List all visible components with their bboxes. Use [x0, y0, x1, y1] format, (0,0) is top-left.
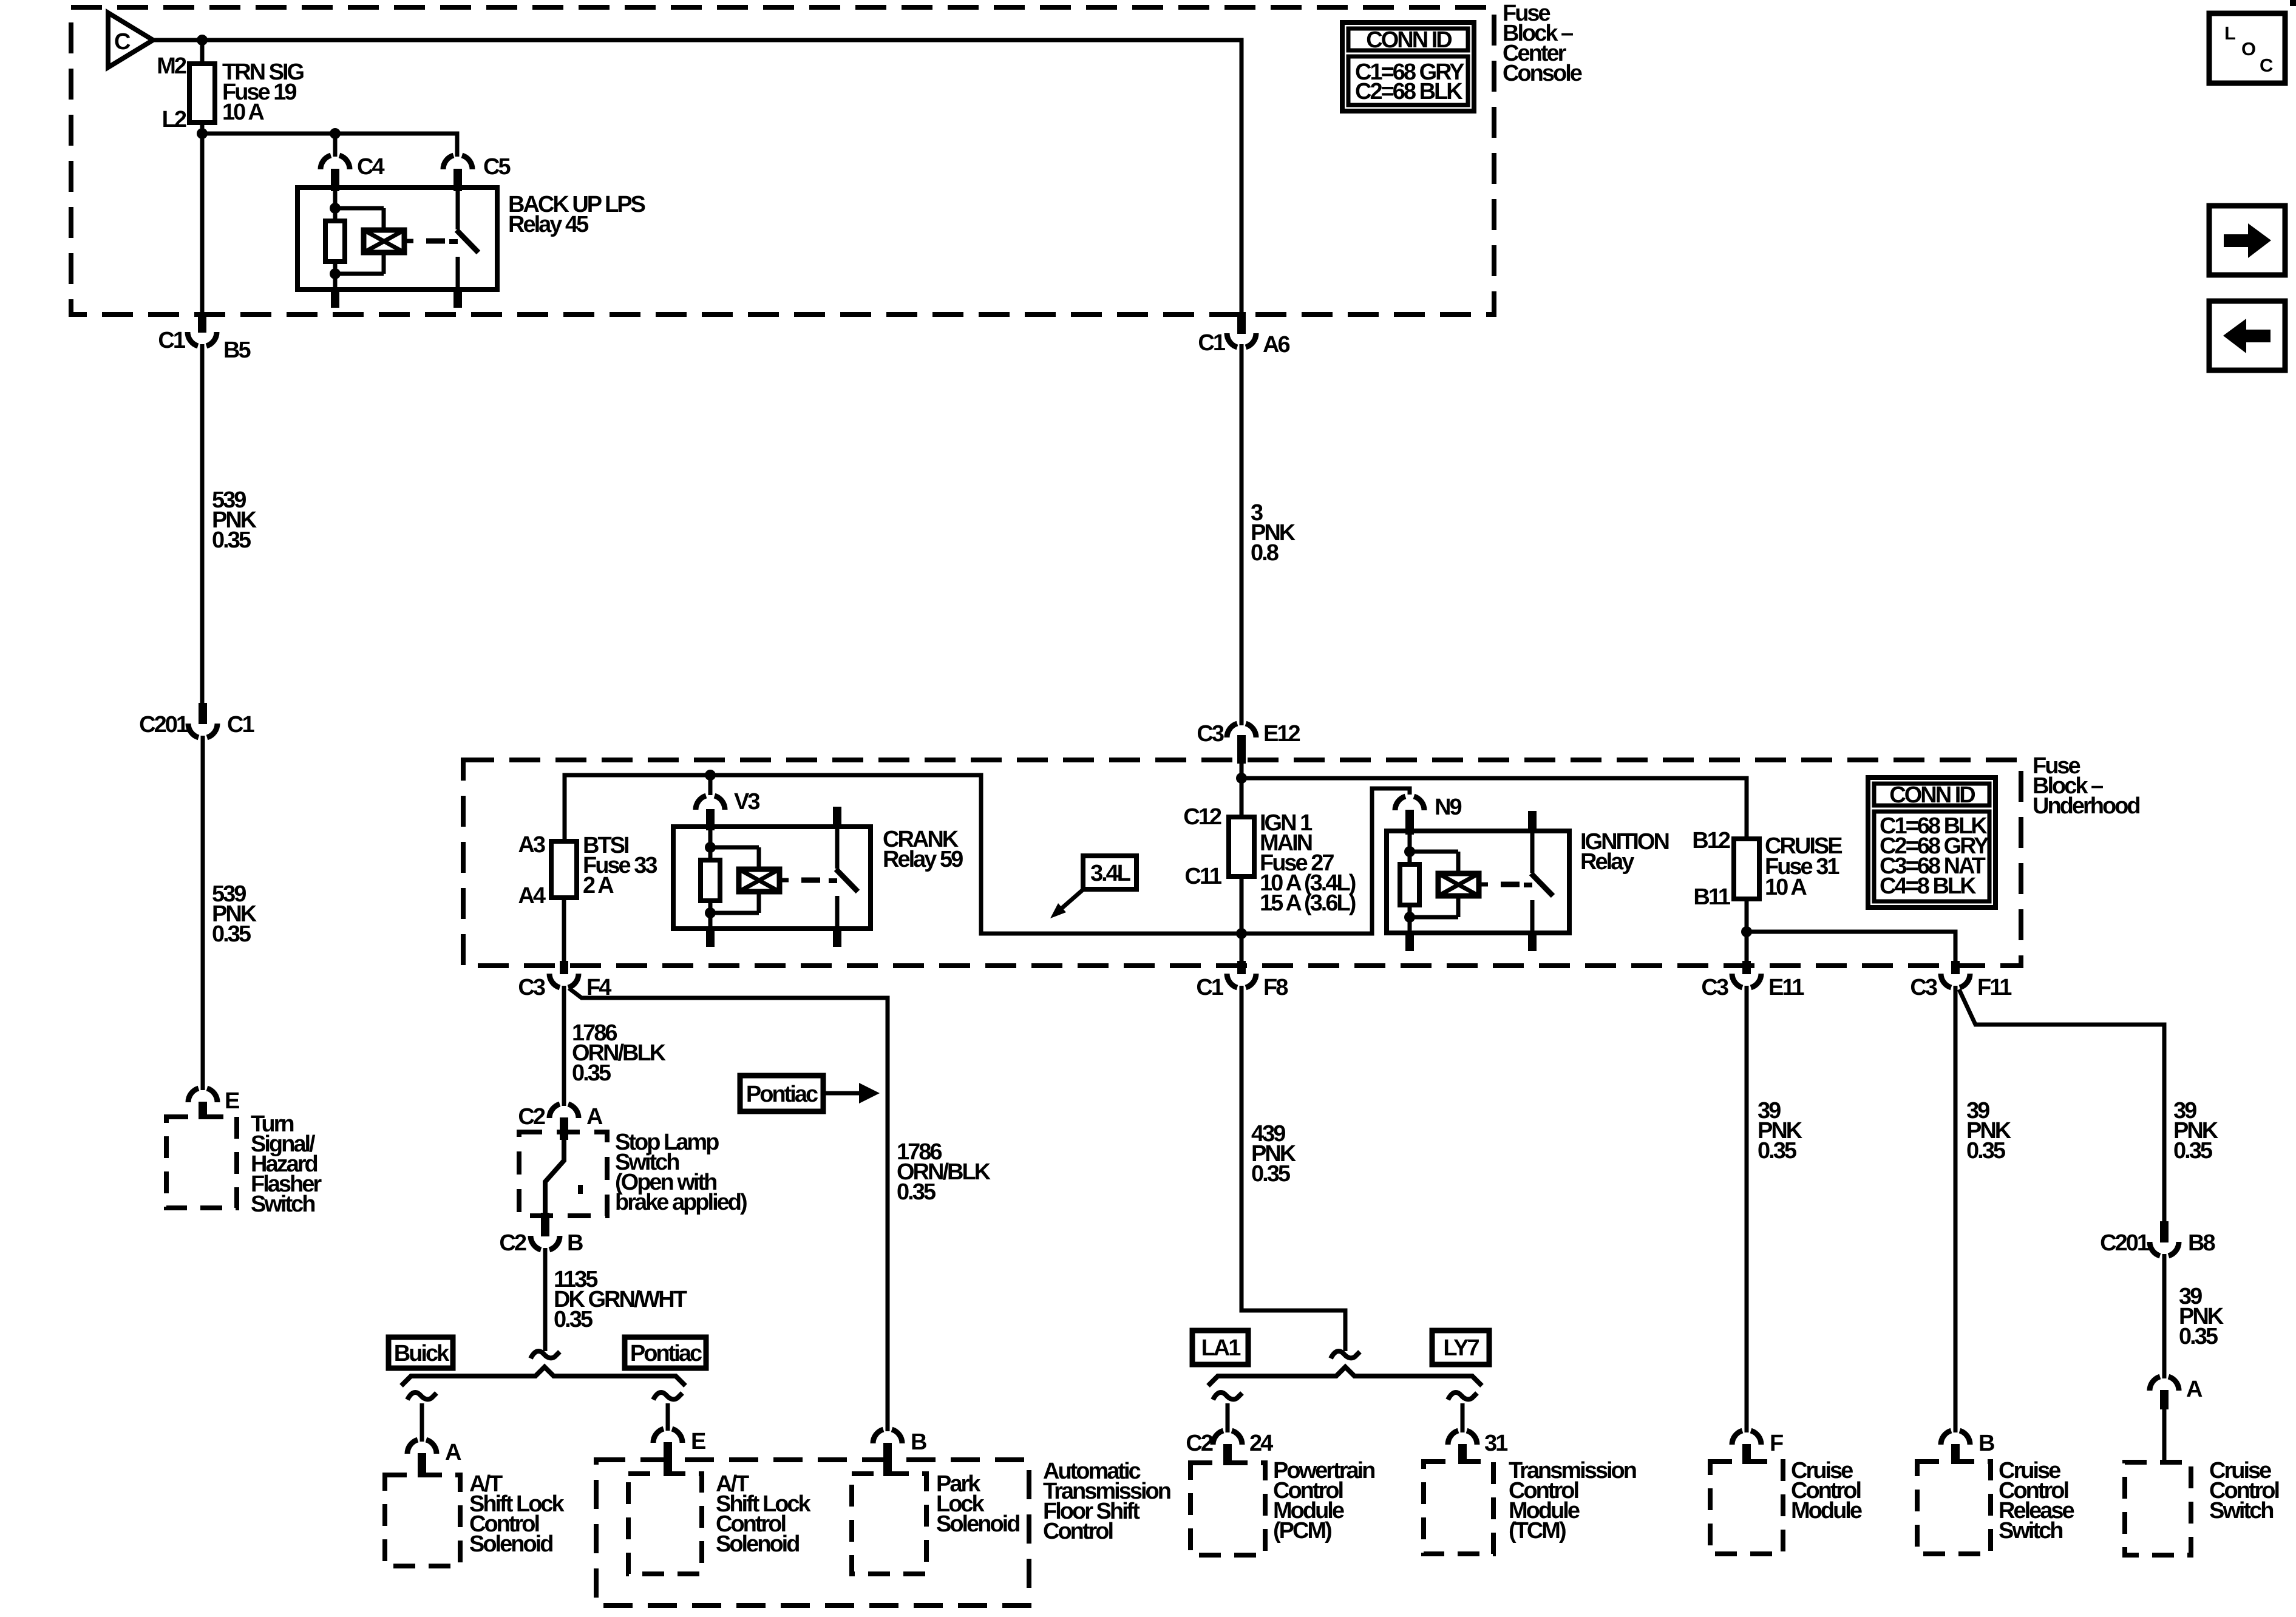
wire 1786 ORN/BLK to stop lamp switch [562, 986, 566, 1106]
label C3 at E11 [1701, 975, 1728, 1000]
wire label 1786 ORN/BLK upper [572, 1020, 667, 1086]
label F4 [586, 975, 611, 1000]
svg-text:A: A [445, 1440, 461, 1465]
label B cruise release [1978, 1431, 1994, 1456]
label B5 [223, 337, 251, 363]
tag box LA1 [1192, 1331, 1248, 1364]
tcm label [1509, 1458, 1636, 1544]
label V3 [734, 789, 759, 815]
svg-text:C12: C12 [1183, 804, 1221, 830]
pcm label [1273, 1458, 1374, 1544]
svg-text:E12: E12 [1263, 721, 1300, 747]
svg-text:C201: C201 [139, 712, 189, 737]
tag box 3.4L [1083, 856, 1136, 889]
svg-text:C1: C1 [1196, 975, 1223, 1000]
pin label A3 [518, 832, 545, 858]
svg-text:V3: V3 [734, 789, 759, 815]
connector E turn signal [188, 1088, 217, 1119]
svg-text:Solenoid: Solenoid [716, 1531, 799, 1557]
wire 539 PNK upper segment [200, 344, 205, 704]
fuse block underhood label [2033, 753, 2139, 819]
svg-text:O: O [2241, 38, 2255, 59]
wire cruise fuse tap to F11 [1747, 932, 1955, 963]
svg-text:C2: C2 [499, 1230, 526, 1256]
legend arrow right box [2209, 206, 2285, 275]
wire label 3 PNK 0.8 [1251, 500, 1296, 566]
junction dot at C4 branch [330, 128, 341, 139]
connector B cruise release [1941, 1431, 1970, 1464]
connector 31 tcm [1448, 1431, 1477, 1464]
svg-text:C: C [2260, 55, 2273, 76]
svg-text:C3: C3 [518, 975, 545, 1000]
svg-text:C3: C3 [1701, 975, 1728, 1000]
wire right bus to cruise fuse [1241, 778, 1747, 839]
junction dot below cruise fuse [1741, 926, 1752, 937]
svg-text:Switch: Switch [251, 1192, 314, 1217]
cruise switch label [2209, 1458, 2279, 1524]
pin label A4 [518, 883, 545, 909]
wire break left branch [407, 1392, 436, 1400]
svg-text:Console: Console [1503, 61, 1582, 86]
svg-text:A3: A3 [518, 832, 545, 858]
label C1 at A6 [1198, 330, 1225, 356]
pin label B11 [1693, 884, 1730, 910]
label C1 at F8 [1196, 975, 1223, 1000]
relay 45 label [508, 192, 645, 237]
conn id table center console [1342, 22, 1474, 111]
wire 39 PNK below B8 [2162, 1254, 2167, 1378]
connector C1/A6 [1227, 312, 1256, 347]
label C2 at A [518, 1104, 545, 1130]
wire top bus from C triangle to A6 drop [153, 40, 1241, 317]
svg-text:(TCM): (TCM) [1509, 1518, 1566, 1544]
connector C5 [443, 155, 472, 191]
fuse block center console label [1503, 1, 1582, 86]
svg-text:C3: C3 [1197, 721, 1223, 747]
connector A cruise switch [2150, 1377, 2179, 1409]
label C1 at C201 [227, 712, 254, 737]
pin label M2 [157, 53, 186, 79]
svg-text:0.35: 0.35 [1758, 1138, 1797, 1164]
svg-text:2 A: 2 A [583, 873, 614, 898]
svg-text:C4: C4 [357, 154, 384, 180]
svg-text:0.35: 0.35 [897, 1179, 936, 1205]
connector N9 [1395, 796, 1424, 835]
connector C3/E12 [1227, 724, 1256, 764]
tag box LY7 [1432, 1331, 1489, 1364]
fuse F31 CRUISE 10A [1734, 839, 1759, 899]
svg-text:C2=68 BLK: C2=68 BLK [1355, 79, 1463, 104]
fuse block center console dashed box [71, 7, 1494, 314]
wire break above brace 1 [531, 1351, 560, 1358]
cruise control module label [1791, 1458, 1862, 1524]
fuse F33 BTSI 2A [551, 841, 577, 898]
svg-text:B: B [1978, 1431, 1994, 1456]
pontiac shift lock solenoid label [716, 1471, 812, 1557]
connector C1/F8 [1227, 961, 1256, 988]
tcm box [1424, 1462, 1493, 1554]
label E turn signal [225, 1088, 239, 1114]
pcm box [1190, 1463, 1265, 1555]
tag box Pontiac lower [625, 1337, 706, 1368]
stop lamp switch blade [545, 1140, 580, 1215]
svg-text:E: E [691, 1429, 705, 1454]
connector C201/C1 [188, 703, 217, 737]
tag box Pontiac with arrow [740, 1076, 880, 1111]
splice brace buick/pontiac [401, 1367, 685, 1386]
wire 39 PNK to cruise module [1745, 986, 1749, 1432]
label C4 [357, 154, 384, 180]
wire label 39 PNK 0.35 branch lower [2179, 1284, 2224, 1349]
svg-text:0.8: 0.8 [1251, 540, 1279, 566]
svg-text:0.35: 0.35 [554, 1307, 593, 1332]
fuse 31 value label [1765, 833, 1842, 900]
splice brace la1/ly7 [1208, 1367, 1482, 1386]
connector C3/E11 [1732, 961, 1761, 988]
svg-text:A6: A6 [1263, 332, 1289, 358]
svg-text:Pontiac: Pontiac [630, 1341, 702, 1366]
label 24 [1249, 1431, 1273, 1456]
svg-text:3.4L: 3.4L [1090, 861, 1131, 886]
arrow from 3.4L tag [1050, 888, 1085, 918]
svg-text:B: B [911, 1429, 926, 1455]
cruise release switch label [1999, 1458, 2074, 1544]
fuse F27 IGN1 MAIN [1229, 817, 1254, 876]
label F11 [1977, 975, 2012, 1000]
svg-text:0.35: 0.35 [572, 1060, 611, 1086]
svg-text:C3: C3 [1910, 975, 1937, 1000]
label E12 [1263, 721, 1300, 747]
svg-text:0.35: 0.35 [1966, 1138, 2006, 1164]
legend arrow left box [2209, 301, 2285, 370]
label C2 at pcm [1186, 1431, 1212, 1456]
pin label L2 [162, 107, 186, 132]
svg-text:(PCM): (PCM) [1273, 1518, 1331, 1544]
wire label 39 PNK 0.35 f11 [1966, 1098, 2012, 1164]
wire label 539 PNK 0.35 upper [212, 487, 257, 553]
wire break pcm branch [1213, 1392, 1242, 1400]
wire 39 PNK branch to cruise switch [1959, 989, 2164, 1221]
svg-text:F11: F11 [1977, 975, 2012, 1000]
relay IGNITION label [1580, 829, 1668, 875]
svg-text:0.35: 0.35 [212, 527, 251, 553]
stop lamp switch box [519, 1132, 607, 1216]
wire label 1786 ORN/BLK lower [897, 1139, 991, 1205]
LOC legend box [2209, 13, 2285, 83]
wire down to C4 [333, 134, 338, 157]
svg-text:24: 24 [1249, 1431, 1273, 1456]
svg-text:C5: C5 [483, 154, 511, 180]
label C1 at B5 [158, 328, 185, 353]
connector C2/24 pcm [1213, 1431, 1242, 1465]
svg-text:C201: C201 [2100, 1230, 2150, 1256]
wire 1786 ORN/BLK branch to park lock [569, 988, 888, 1431]
svg-text:0.35: 0.35 [1251, 1161, 1291, 1187]
svg-text:L: L [2224, 22, 2235, 44]
label B stop lamp [567, 1230, 583, 1256]
svg-text:Switch: Switch [2209, 1498, 2273, 1524]
off-page connector triangle C [108, 13, 153, 67]
wire break tcm branch [1448, 1392, 1477, 1400]
wire branch to backup lamp relay [202, 134, 457, 157]
wire 439 PNK [1241, 986, 1345, 1351]
cruise control module box [1710, 1462, 1783, 1554]
wire label 539 PNK 0.35 lower [212, 881, 257, 947]
label B8 [2188, 1230, 2215, 1256]
wire label 39 PNK 0.35 e11 [1758, 1098, 1803, 1164]
relay IGNITION [1387, 811, 1569, 951]
relay 59 label [883, 827, 963, 872]
connector A buick solenoid [407, 1440, 436, 1477]
fuse 19 value label [222, 59, 304, 125]
junction dot at V3 tap [705, 770, 716, 781]
wire into fuse 19 [200, 40, 205, 64]
connector C4 [321, 155, 350, 191]
label E pontiac [691, 1429, 705, 1454]
automatic transmission floor shift control box [596, 1460, 1029, 1605]
wire label 39 PNK 0.35 branch upper [2173, 1098, 2219, 1164]
wire cruise fuse to E11 [1745, 899, 1749, 963]
svg-text:10 A: 10 A [222, 100, 264, 125]
label N9 [1435, 795, 1461, 820]
connector E pontiac solenoid [653, 1429, 682, 1476]
connector C201/B8 [2150, 1221, 2179, 1256]
svg-text:F: F [1770, 1431, 1783, 1456]
fuse 33 value label [583, 833, 657, 898]
label A stop lamp [586, 1104, 603, 1130]
wire break right branch [653, 1392, 682, 1400]
svg-text:E: E [225, 1088, 239, 1114]
wire to connector A buick [420, 1403, 424, 1442]
buick shift lock solenoid box [385, 1475, 460, 1566]
svg-text:E11: E11 [1768, 975, 1804, 1000]
wire into cruise switch box [2162, 1409, 2167, 1462]
wire fuse19 to B5 stub [200, 123, 205, 317]
svg-text:Underhood: Underhood [2033, 793, 2139, 819]
svg-text:0.35: 0.35 [212, 921, 251, 947]
wire to connector 31 [1461, 1403, 1465, 1432]
fuse block underhood dashed box [463, 760, 2021, 966]
wire 1135 DK GRN/WHT [543, 1248, 548, 1351]
svg-text:N9: N9 [1435, 795, 1461, 820]
svg-text:B: B [567, 1230, 583, 1256]
connector C1/B5 [188, 312, 217, 346]
svg-text:10 A: 10 A [1765, 875, 1807, 900]
connector C2/B [531, 1213, 560, 1250]
label C201 [139, 712, 189, 737]
pontiac shift lock solenoid box [628, 1474, 702, 1574]
svg-text:C1: C1 [158, 328, 185, 353]
conn id table underhood [1868, 778, 1995, 907]
svg-text:A4: A4 [518, 883, 545, 909]
connector C2/A [549, 1104, 579, 1140]
svg-text:B12: B12 [1692, 828, 1730, 853]
connector C3/F11 [1941, 961, 1970, 988]
label C2 at B [499, 1230, 526, 1256]
svg-text:C11: C11 [1184, 864, 1221, 889]
connector V3 [696, 796, 725, 830]
svg-text:F8: F8 [1263, 975, 1288, 1000]
svg-text:brake applied): brake applied) [615, 1190, 747, 1215]
label C201 at B8 [2100, 1230, 2150, 1256]
buick shift lock solenoid label [469, 1471, 565, 1557]
junction dot at fuse 27 bottom [1236, 928, 1247, 939]
svg-text:Solenoid: Solenoid [936, 1511, 1019, 1537]
pin label B12 [1692, 828, 1730, 853]
wire to connector E pontiac [666, 1403, 670, 1431]
svg-text:0.35: 0.35 [2179, 1324, 2218, 1349]
wire E12 to F8 through fuse 27 [1240, 764, 1244, 963]
svg-text:B5: B5 [223, 337, 251, 363]
label C3 at F4 [518, 975, 545, 1000]
automatic transmission floor shift control label [1043, 1459, 1170, 1544]
label F cruise module [1770, 1431, 1783, 1456]
svg-text:B11: B11 [1693, 884, 1730, 910]
page corner mark [2290, 0, 2296, 6]
svg-text:Solenoid: Solenoid [469, 1531, 552, 1557]
wire label 439 PNK 0.35 [1251, 1121, 1297, 1187]
connector F cruise module [1732, 1431, 1761, 1464]
connector C3/F4 [549, 961, 579, 988]
svg-text:Pontiac: Pontiac [746, 1082, 818, 1107]
junction dot at fuse 19 tap [197, 35, 208, 46]
svg-text:M2: M2 [157, 53, 186, 79]
svg-text:C2: C2 [518, 1104, 545, 1130]
svg-text:C4=8 BLK: C4=8 BLK [1880, 873, 1977, 899]
turn signal hazard flasher switch box [166, 1117, 237, 1208]
svg-text:0.35: 0.35 [2173, 1138, 2213, 1164]
wire left bus to BTSI and crank relay [565, 775, 1410, 934]
label C3 at F11 [1910, 975, 1937, 1000]
wire break above brace 2 [1331, 1351, 1360, 1358]
svg-text:C1: C1 [227, 712, 254, 737]
turn signal hazard flasher switch label [251, 1111, 322, 1217]
label B park lock [911, 1429, 926, 1455]
wire 39 PNK to release switch [1954, 986, 1958, 1432]
junction dot below fuse 19 [197, 128, 208, 139]
svg-text:B8: B8 [2188, 1230, 2215, 1256]
svg-text:C2: C2 [1186, 1431, 1212, 1456]
svg-text:L2: L2 [162, 107, 186, 132]
pin label C11 [1184, 864, 1221, 889]
junction dot at right bus [1236, 773, 1247, 784]
label E11 [1768, 975, 1804, 1000]
wire 3 PNK segment [1240, 344, 1244, 725]
relay 45 BACK UP LPS [297, 188, 497, 308]
svg-text:CONN ID: CONN ID [1366, 27, 1452, 53]
wire 539 PNK lower segment [201, 736, 205, 1090]
svg-text:A: A [2186, 1377, 2203, 1402]
svg-text:31: 31 [1484, 1431, 1508, 1456]
svg-text:Switch: Switch [1999, 1518, 2062, 1544]
label A cruise switch [2186, 1377, 2203, 1402]
label A buick [445, 1440, 461, 1465]
label C5 [483, 154, 511, 180]
connector B park lock [873, 1429, 902, 1476]
svg-text:LY7: LY7 [1443, 1335, 1479, 1361]
wire BTSI fuse to F4 [562, 898, 566, 963]
wire to connector 24 [1226, 1403, 1230, 1432]
tag box Buick [389, 1337, 453, 1368]
label F8 [1263, 975, 1288, 1000]
label A6 [1263, 332, 1289, 358]
stop lamp switch label [615, 1130, 747, 1215]
label 31 [1484, 1431, 1508, 1456]
svg-text:Relay 45: Relay 45 [508, 212, 589, 237]
park lock solenoid label [936, 1471, 1019, 1537]
park lock solenoid box [852, 1474, 926, 1574]
svg-text:Relay 59: Relay 59 [883, 847, 963, 872]
svg-text:CONN ID: CONN ID [1889, 782, 1975, 808]
fuse F19 TRN SIG 10A [189, 64, 215, 123]
relay 59 CRANK [673, 807, 871, 947]
cruise release switch box [1917, 1462, 1991, 1554]
pin label C12 [1183, 804, 1221, 830]
wire down to V3 [708, 775, 713, 795]
cruise switch box [2125, 1462, 2191, 1555]
svg-text:C: C [114, 29, 131, 55]
label C3 at E12 [1197, 721, 1223, 747]
svg-text:Relay: Relay [1580, 849, 1634, 875]
svg-text:A: A [586, 1104, 603, 1130]
svg-text:Control: Control [1043, 1519, 1113, 1544]
svg-text:Buick: Buick [394, 1341, 450, 1366]
svg-text:Module: Module [1791, 1498, 1862, 1524]
svg-text:C1: C1 [1198, 330, 1225, 356]
svg-text:LA1: LA1 [1201, 1335, 1241, 1361]
svg-text:15 A (3.6L): 15 A (3.6L) [1260, 890, 1356, 916]
fuse 27 value label [1260, 810, 1356, 916]
wire label 1135 DK GRN/WHT [554, 1267, 687, 1332]
